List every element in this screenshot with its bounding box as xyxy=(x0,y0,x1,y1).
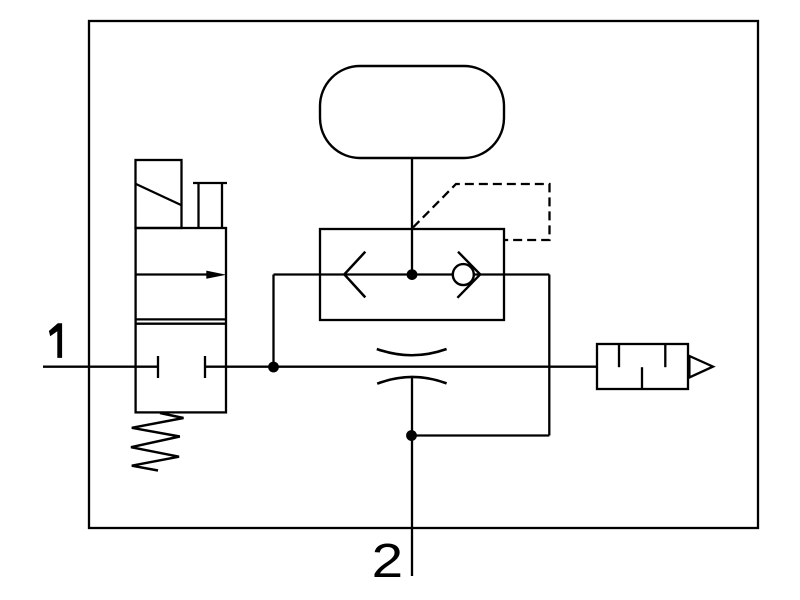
svg-text:2: 2 xyxy=(372,534,404,588)
silencer / nozzle xyxy=(597,344,713,389)
pilot line (dashed) xyxy=(413,184,550,240)
solenoid coil Y1 xyxy=(136,160,182,228)
wire centerline through valve xyxy=(274,273,550,275)
one-way flow control valve U1 body xyxy=(320,229,504,320)
node B junction xyxy=(407,269,418,280)
main wire to silencer xyxy=(205,366,597,368)
port 1 label xyxy=(49,323,62,358)
wire right branch down xyxy=(548,275,550,436)
manual override button xyxy=(193,183,227,228)
node C junction xyxy=(406,430,417,441)
throttle chevron xyxy=(344,252,365,298)
blocked port ticks (rest position) xyxy=(158,356,205,378)
throttle restriction lower arc xyxy=(377,377,446,384)
wire reservoir to flow-control valve xyxy=(411,158,413,275)
check valve xyxy=(453,252,480,298)
throttle restriction upper arc xyxy=(377,349,447,355)
enclosure boundary xyxy=(89,21,758,528)
wire left branch xyxy=(272,275,274,368)
reservoir (volume chamber) xyxy=(320,66,504,158)
valve V1 body (2 position squares) xyxy=(136,228,226,412)
node A junction xyxy=(268,362,279,373)
port 2 wire xyxy=(411,377,413,576)
return spring xyxy=(131,413,184,471)
wire right branch bottom xyxy=(412,434,550,436)
flow path arrow (actuated position) xyxy=(136,273,210,275)
port 1 line xyxy=(43,366,158,368)
